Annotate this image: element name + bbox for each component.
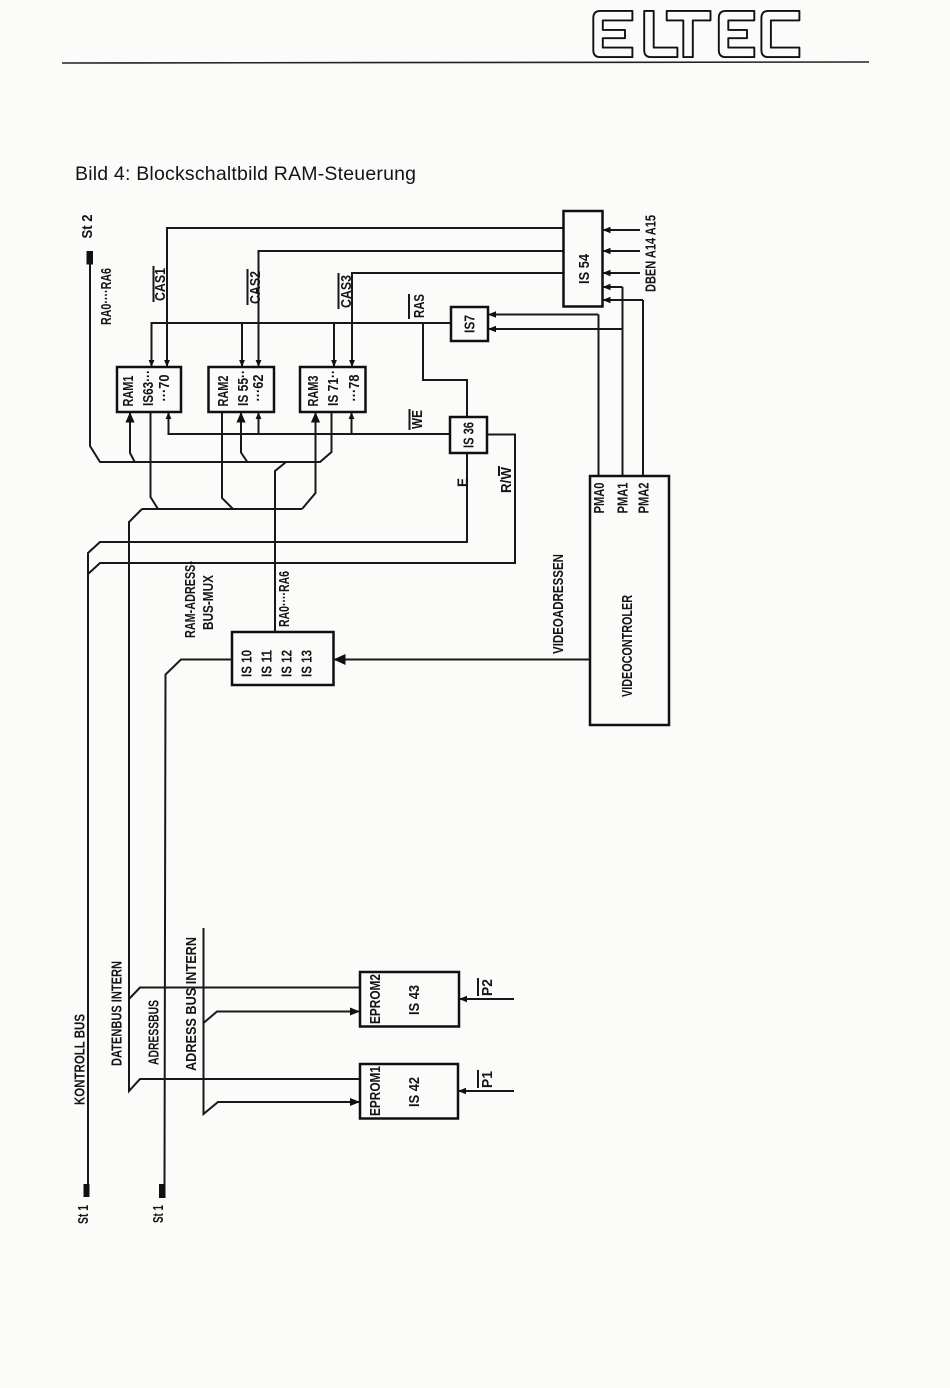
svg-text:IS 10: IS 10 xyxy=(240,650,256,677)
svg-text:IS 55··: IS 55·· xyxy=(236,370,252,406)
svg-text:PMA1: PMA1 xyxy=(616,483,632,514)
svg-text:IS 36: IS 36 xyxy=(462,422,478,448)
svg-text:IS 11: IS 11 xyxy=(260,650,276,677)
connector St1 (adressbus) xyxy=(159,1184,166,1198)
header rule xyxy=(62,62,869,63)
wire RAM1 address pin to bus1 (thick arrow) xyxy=(130,412,135,462)
wire DATENBUS INTERN vertical with EPROM branches xyxy=(129,509,360,1091)
svg-text:RAM3: RAM3 xyxy=(306,376,322,407)
ELTEC logo xyxy=(593,11,799,57)
label CAS2 xyxy=(248,269,265,305)
connector St2 xyxy=(87,251,94,265)
wire CAS1 net xyxy=(167,228,564,367)
svg-text:IS 54: IS 54 xyxy=(577,254,593,284)
PMA0 net xyxy=(598,315,600,477)
svg-text:R/W: R/W xyxy=(499,467,515,493)
svg-text:VIDEOADRESSEN: VIDEOADRESSEN xyxy=(551,554,567,654)
svg-text:IS 43: IS 43 xyxy=(407,985,423,1015)
svg-text:ADRESS BUS INTERN: ADRESS BUS INTERN xyxy=(184,937,200,1071)
svg-text:BUS-MUX: BUS-MUX xyxy=(201,575,217,630)
svg-text:···70: ···70 xyxy=(157,375,173,402)
svg-text:RAM2: RAM2 xyxy=(216,376,232,407)
IS54 PMA2 input xyxy=(603,299,644,301)
svg-text:St 1: St 1 xyxy=(151,1205,167,1223)
wire VIDEOCONTROLER to MUX xyxy=(334,659,591,661)
wire CAS3 net xyxy=(352,273,564,367)
svg-text:···62: ···62 xyxy=(251,375,267,402)
svg-text:CAS1: CAS1 xyxy=(153,268,169,301)
svg-text:···78: ···78 xyxy=(347,375,363,402)
connector St1 (kontroll) xyxy=(84,1184,90,1197)
svg-text:St 2: St 2 xyxy=(80,215,96,239)
svg-text:P2: P2 xyxy=(480,979,496,996)
wire E net xyxy=(88,453,467,1184)
svg-text:P1: P1 xyxy=(480,1071,496,1088)
svg-text:ADRESSBUS: ADRESSBUS xyxy=(147,1000,163,1065)
EPROM1 box xyxy=(360,1064,458,1119)
VIDEOCONTROLER box xyxy=(590,476,669,725)
svg-text:RAM1: RAM1 xyxy=(121,376,137,407)
svg-text:RAS: RAS xyxy=(412,294,428,318)
arrow RAM3 address (thick) xyxy=(311,412,320,423)
svg-text:WE: WE xyxy=(410,410,426,429)
IC IS54 box xyxy=(564,211,603,307)
wire P1 xyxy=(458,1090,514,1092)
PMA2 net xyxy=(642,300,644,476)
wire RAM1 data pin to bus2 xyxy=(151,412,159,509)
svg-text:DBEN A14 A15: DBEN A14 A15 xyxy=(644,215,660,292)
wire bus2 DATENBUS horizontal xyxy=(142,508,302,510)
svg-text:IS 12: IS 12 xyxy=(280,650,296,677)
label P1 xyxy=(478,1070,496,1088)
svg-text:EPROM2: EPROM2 xyxy=(368,974,384,1024)
PMA1 net xyxy=(622,287,624,476)
arrow RAM top RAS pins xyxy=(149,360,155,367)
svg-text:RA0····RA6: RA0····RA6 xyxy=(277,571,293,627)
wire ADRESS BUS INTERN xyxy=(204,928,361,1114)
MUX box IS10-13 xyxy=(232,632,334,685)
svg-text:KONTROLL BUS: KONTROLL BUS xyxy=(73,1014,89,1105)
arrow WE pins xyxy=(166,412,172,419)
wire P2 xyxy=(459,998,514,1000)
IS7 inputs from PMA0 PMA1 xyxy=(488,314,599,316)
IC IS36 box xyxy=(450,417,487,453)
IC IS7 box xyxy=(451,307,488,341)
label CAS3 xyxy=(339,273,356,309)
svg-text:IS63···: IS63··· xyxy=(141,370,157,406)
label R/W xyxy=(499,466,515,493)
wire bus1 RA0-RA6 (St2 drop, horizontal bus, RAM3 middle pin) xyxy=(90,261,332,462)
svg-text:VIDEOCONTROLER: VIDEOCONTROLER xyxy=(620,595,636,697)
RAM1 box xyxy=(117,367,181,412)
label CAS1 xyxy=(153,266,169,302)
wire MUX output RA0-RA6 to bus1 xyxy=(275,462,286,632)
wire RAS net xyxy=(152,323,452,367)
EPROM2 box xyxy=(360,972,459,1027)
wire RAM3 address pin to bus2 xyxy=(302,412,316,509)
svg-text:CAS3: CAS3 xyxy=(339,275,355,308)
label WE xyxy=(410,409,427,430)
wire MUX left to ADRESSBUS xyxy=(165,660,233,1185)
IS54 input wires A15 A14 DBEN xyxy=(603,230,641,273)
IS54 PMA1 input xyxy=(603,286,623,288)
svg-text:DATENBUS INTERN: DATENBUS INTERN xyxy=(110,961,126,1066)
svg-text:RAM-ADRESS-: RAM-ADRESS- xyxy=(183,561,199,638)
wire WE bus (RAM bottoms to IS36) xyxy=(169,412,451,434)
wire CAS2 net xyxy=(259,251,564,367)
svg-text:IS7: IS7 xyxy=(463,315,479,333)
svg-text:EPROM1: EPROM1 xyxy=(368,1066,384,1116)
RAM2 box xyxy=(209,367,275,412)
svg-text:IS 42: IS 42 xyxy=(407,1077,423,1107)
svg-text:Bild 4: Blockschaltbild RAM-St: Bild 4: Blockschaltbild RAM-Steuerung xyxy=(75,163,416,185)
svg-text:CAS2: CAS2 xyxy=(248,271,264,304)
wire R/W net xyxy=(88,435,515,575)
svg-text:RA0····RA6: RA0····RA6 xyxy=(99,268,115,325)
RAM3 box xyxy=(300,367,366,412)
svg-text:IS 71··: IS 71·· xyxy=(326,370,342,406)
svg-text:PMA2: PMA2 xyxy=(637,483,653,514)
svg-text:PMA0: PMA0 xyxy=(592,483,608,514)
svg-text:E: E xyxy=(456,478,472,487)
wire RAM2 address pin to bus1 (thick arrow) xyxy=(241,412,247,462)
label RAS xyxy=(409,294,428,319)
wire RAM2 data pin to bus2 xyxy=(222,412,233,509)
svg-text:IS 13: IS 13 xyxy=(300,650,316,677)
svg-text:St 1: St 1 xyxy=(76,1205,92,1224)
label P2 xyxy=(478,978,496,996)
